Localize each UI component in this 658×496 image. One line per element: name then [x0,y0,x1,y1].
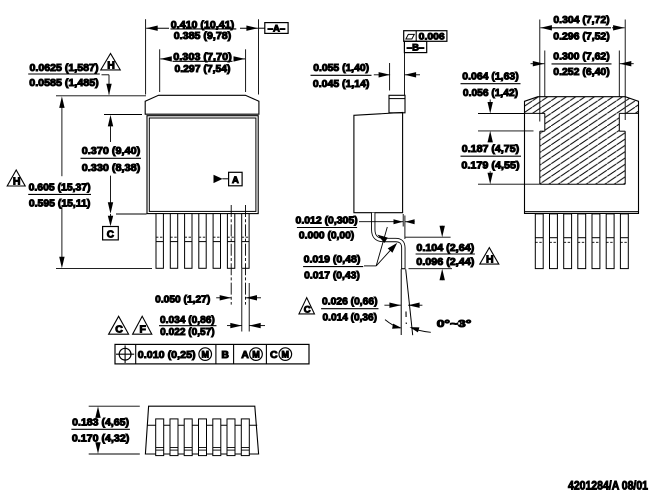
svg-text:M: M [201,349,209,359]
svg-text:C: C [304,304,311,315]
svg-text:0.056 (1,42): 0.056 (1,42) [463,88,518,99]
svg-text:A: A [241,349,249,361]
lead 7 edge extension lines [242,269,249,332]
svg-text:0.050 (1,27): 0.050 (1,27) [155,295,210,306]
svg-text:0.385 (9,78): 0.385 (9,78) [174,31,232,42]
svg-text:0.605 (15,37): 0.605 (15,37) [29,182,91,193]
back view lead 2 [550,214,558,269]
dimension 0.026 (0,66) / 0.014 (0,36) foot width [321,297,422,324]
svg-text:M: M [282,349,290,359]
dimension 0.019 (0,48) / 0.017 (0,43) lead thickness [303,227,397,282]
svg-text:0.370 (9,40): 0.370 (9,40) [82,146,141,157]
dimension 0.034 (0,86) / 0.022 (0,57) lead width [159,315,265,338]
svg-text:0.012 (0,305): 0.012 (0,305) [296,216,358,227]
svg-text:C: C [115,324,123,336]
bottom view lead 5 [213,419,221,456]
svg-text:B: B [221,349,229,361]
back view lead 4 [578,214,586,269]
svg-text:–A–: –A– [268,24,285,35]
svg-text:0.183 (4,65): 0.183 (4,65) [72,417,129,428]
dimension 0.605 (15,37) / 0.595 (15,11) overall height [28,96,152,268]
bottom view lead 3 [184,419,192,456]
front view lead 5 [213,214,220,269]
front view lead 1 [156,214,163,269]
front view lead 6 [227,214,234,269]
svg-text:H: H [13,175,21,187]
dimension 0.410 (10,41) / 0.385 (9,78) tab width [146,19,259,94]
svg-text:0.187 (4,75): 0.187 (4,75) [462,144,519,155]
svg-text:0.595 (15,11): 0.595 (15,11) [29,199,91,210]
datum C box (front) [103,227,119,241]
svg-text:0.179 (4,55): 0.179 (4,55) [461,161,519,172]
drawing number 4201284/A 08/01 [568,478,648,492]
svg-text:0.297 (7,54): 0.297 (7,54) [175,64,231,75]
svg-text:0.252 (6,40): 0.252 (6,40) [553,67,610,78]
svg-text:0.330 (8,38): 0.330 (8,38) [82,163,141,174]
svg-text:0.064 (1,63): 0.064 (1,63) [462,72,518,83]
svg-text:H: H [107,59,115,71]
front view molded body (double outline) [147,116,258,214]
svg-text:0°~3°: 0°~3° [437,319,472,330]
dimension 0.370 (9,40) / 0.330 (8,38) body height [81,115,147,227]
svg-text:0.019 (0,48): 0.019 (0,48) [304,254,361,265]
svg-text:0.034 (0,86): 0.034 (0,86) [160,315,215,326]
back view lead 7 [620,214,628,269]
dimension 0.304 (7,72) / 0.296 (7,52) tab block width [540,15,625,122]
datum A flag (arrow into front face) [214,172,243,186]
svg-text:A: A [232,175,239,186]
dimension 0.300 (7,62) / 0.252 (6,40) tab neck width [531,51,634,97]
bottom view lead 1 [156,419,164,456]
svg-text:H: H [486,254,494,266]
datum target H (left) [7,170,25,187]
svg-text:0.0625 (1,587): 0.0625 (1,587) [30,63,99,74]
datum B extension line [404,53,406,95]
front view lead 4 [199,214,206,269]
svg-text:F: F [139,324,146,336]
lead 6 centerline [230,205,232,305]
dimension 0.183 (4,65) / 0.170 (4,32) body thickness [71,406,139,454]
bottom view lead 7 [241,419,249,456]
dimension 0.303 (7,70) / 0.297 (7,54) [160,49,246,92]
feature control frame: position 0.010 (0,25) M | B | A(M) | C(M) [115,344,309,364]
dimension 0.012 (0,305) / 0.000 (0,00) [296,214,415,242]
dimension 0.0625 (1,587) / 0.0585 (1,485) [28,63,112,95]
back view lead 1 [535,214,543,269]
flatness feature frame 0.006 [404,31,447,43]
front view tab (chamfered top) [145,95,259,114]
svg-text:0.000 (0,00): 0.000 (0,00) [299,231,354,242]
lead 7 centerline [245,205,247,305]
lead foot tolerance zone lines [401,269,413,335]
svg-text:0.055 (1,40): 0.055 (1,40) [313,63,369,74]
side view body [354,113,403,213]
dimension 0.050 (1,27) lead pitch [155,295,261,306]
svg-text:0.022 (0,57): 0.022 (0,57) [160,327,214,338]
svg-text:C: C [270,349,278,361]
datum target H (right of 0.096) [480,248,499,266]
datum target C (bottom left) [109,316,129,335]
datum -A- flag [259,23,289,35]
bottom view body [145,406,258,454]
svg-text:0.010 (0,25): 0.010 (0,25) [138,349,196,361]
datum -B- flag [404,41,426,53]
svg-text:0.096 (2,44): 0.096 (2,44) [416,257,474,268]
datum target F [133,316,152,335]
svg-text:0.304 (7,72): 0.304 (7,72) [553,15,609,26]
tab top extension line [56,95,146,97]
back view lead 5 [592,214,600,269]
svg-text:0.017 (0,43): 0.017 (0,43) [304,271,360,282]
datum target C (side view) [299,298,315,316]
back view body outline (chamfered) [525,97,639,214]
svg-text:0.045 (1,14): 0.045 (1,14) [313,79,370,90]
svg-text:0.014 (0,36): 0.014 (0,36) [323,312,378,323]
front view lead 2 [170,214,177,269]
back view hatched exposed tab (strip + neck + block) [525,97,639,185]
svg-text:0.026 (0,66): 0.026 (0,66) [322,297,378,308]
bottom view lead 6 [227,419,235,456]
svg-text:0.300 (7,62): 0.300 (7,62) [553,52,610,63]
svg-text:M: M [252,349,260,359]
front view lead 7 [242,214,249,269]
dimension 0.104 (2,64) / 0.096 (2,44) lead height [405,226,475,281]
svg-text:0.170 (4,32): 0.170 (4,32) [72,434,130,445]
svg-text:0.0585 (1,485): 0.0585 (1,485) [29,78,99,89]
svg-text:0.296 (7,52): 0.296 (7,52) [553,32,610,43]
dimension 0.064 (1,63) / 0.056 (1,42) neck height [461,72,534,143]
bottom view lead 2 [170,419,178,456]
side view formed lead (S-bend) [373,213,405,269]
dimension 0.055 (1,40) / 0.045 (1,14) tab thickness [311,63,421,91]
side view tab [389,95,405,113]
svg-text:C: C [107,229,114,240]
bottom view lead 4 [199,419,207,456]
datum target H (top) [101,54,121,72]
back view lead 6 [606,214,614,269]
svg-text:–B–: –B– [407,42,424,53]
svg-text:0.104 (2,64): 0.104 (2,64) [416,243,474,254]
front view lead 3 [185,214,192,269]
back view lead 3 [564,214,572,269]
dimension 0.187 (4,75) / 0.179 (4,55) block height [461,144,540,184]
angle dimension 0&#176;~3&#176; [385,319,471,332]
svg-text:4201284/A 08/01: 4201284/A 08/01 [568,478,648,492]
